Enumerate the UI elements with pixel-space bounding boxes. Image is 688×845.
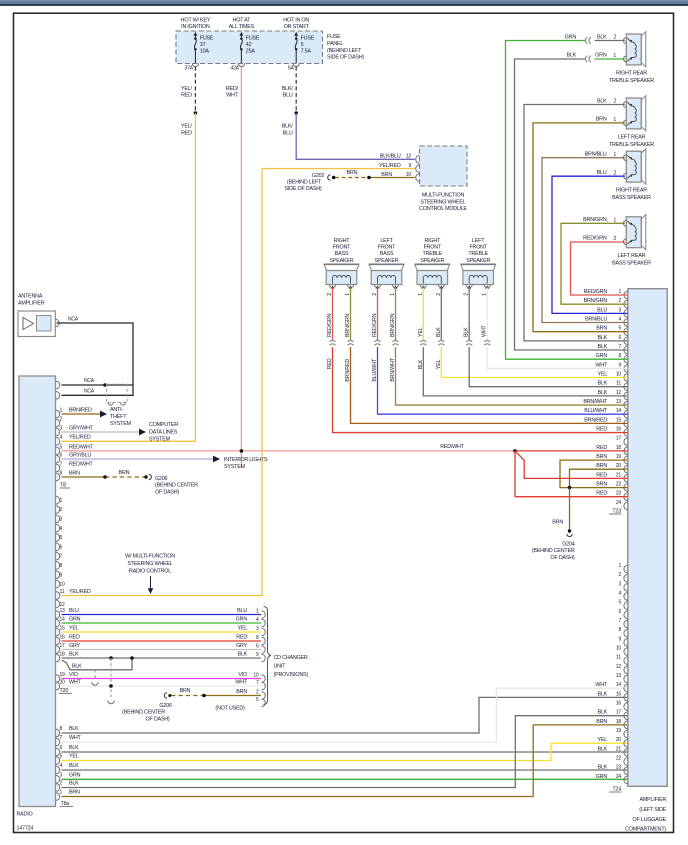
- ground G206 (cd changer): [164, 693, 167, 698]
- svg-text:BLK: BLK: [69, 745, 79, 751]
- svg-text:BRN/BLU: BRN/BLU: [585, 317, 607, 323]
- svg-text:BRN/BLU: BRN/BLU: [585, 152, 607, 158]
- svg-text:37: 37: [200, 42, 206, 48]
- svg-text:BRN: BRN: [596, 454, 607, 460]
- svg-text:5: 5: [618, 600, 621, 606]
- svg-text:RADIO: RADIO: [17, 812, 33, 818]
- svg-text:13: 13: [616, 673, 622, 679]
- svg-text:5: 5: [256, 697, 259, 703]
- svg-text:RIGHT REAR: RIGHT REAR: [616, 70, 647, 76]
- wire BLK/BLU fuse5 to module pin12: [296, 113, 415, 159]
- svg-text:RED: RED: [596, 445, 607, 451]
- svg-text:6: 6: [256, 643, 259, 649]
- svg-text:OF DASH): OF DASH): [551, 555, 575, 561]
- svg-text:RIGHT REAR: RIGHT REAR: [616, 188, 647, 194]
- junction RED/WHT split: [513, 449, 517, 453]
- svg-text:T8a: T8a: [61, 801, 70, 807]
- amp connector T23 pins: [624, 291, 628, 299]
- svg-text:TREBLE: TREBLE: [468, 251, 488, 257]
- svg-text:WHT: WHT: [235, 679, 248, 685]
- svg-text:VIO: VIO: [69, 672, 78, 678]
- wire BRN/GRN left rear bass pin1 to amp T23-2: [561, 223, 628, 304]
- svg-text:19: 19: [616, 728, 622, 734]
- svg-text:SIDE OF DASH): SIDE OF DASH): [327, 55, 364, 61]
- svg-text:RED: RED: [596, 491, 607, 497]
- svg-text:2: 2: [60, 781, 63, 787]
- svg-text:19: 19: [60, 672, 66, 678]
- svg-text:GRN: GRN: [69, 773, 81, 779]
- svg-text:UNIT: UNIT: [274, 664, 287, 670]
- svg-text:18: 18: [616, 445, 622, 451]
- wire RED to amp T23-23: [515, 451, 628, 497]
- svg-text:10: 10: [616, 372, 622, 378]
- amp connector T24 pins: [624, 565, 628, 573]
- svg-text:1: 1: [418, 293, 424, 296]
- wire BLU right rear bass pin2 to amp T23-3: [552, 176, 628, 313]
- svg-text:BLK: BLK: [597, 390, 607, 396]
- svg-text:WHT: WHT: [69, 735, 82, 741]
- svg-text:BASS: BASS: [380, 251, 394, 257]
- junction fuse37 splice: [194, 111, 198, 115]
- svg-text:SIDE OF DASH): SIDE OF DASH): [285, 186, 322, 192]
- svg-text:WHT: WHT: [595, 362, 608, 368]
- svg-text:2: 2: [614, 236, 617, 242]
- svg-text:TREBLE: TREBLE: [422, 251, 442, 257]
- svg-text:8: 8: [256, 635, 259, 641]
- svg-text:25A: 25A: [246, 49, 256, 55]
- wire BLK branch radio pin18: [62, 658, 132, 670]
- wire BLK radio T8a-2 to amp T24-17: [62, 716, 628, 788]
- ground G202: [328, 175, 331, 180]
- svg-text:(BEHIND CENTER: (BEHIND CENTER: [122, 710, 165, 716]
- svg-text:RED/: RED/: [226, 86, 239, 92]
- wire RED/WHT radio pin5 to amplifier: [62, 450, 516, 452]
- svg-text:3: 3: [60, 773, 63, 779]
- svg-text:19: 19: [616, 454, 622, 460]
- svg-text:1: 1: [614, 117, 617, 123]
- svg-text:(BEHIND LEFT: (BEHIND LEFT: [287, 180, 322, 186]
- svg-text:MULTI-FUNCTION: MULTI-FUNCTION: [422, 193, 465, 199]
- svg-text:SPEAKER: SPEAKER: [420, 258, 444, 264]
- wire fuse37 dashed drop: [194, 67, 196, 113]
- wire BLK radio pin18 to CD changer pin 9: [62, 657, 262, 659]
- speaker: RIGHT REAR BASS SPEAKER: [641, 149, 646, 184]
- svg-text:BRN/GRN: BRN/GRN: [390, 313, 396, 337]
- svg-text:1: 1: [614, 218, 617, 224]
- svg-text:1: 1: [618, 563, 621, 569]
- ground G206 (behind center of dash): [144, 475, 147, 478]
- svg-text:14: 14: [60, 616, 66, 622]
- svg-text:42A: 42A: [231, 66, 240, 72]
- svg-text:YEL: YEL: [597, 372, 607, 378]
- svg-text:HOT AT: HOT AT: [233, 18, 252, 24]
- svg-text:TREBLE SPEAKER: TREBLE SPEAKER: [609, 78, 654, 84]
- svg-text:YEL: YEL: [436, 360, 442, 370]
- svg-text:7.5A: 7.5A: [301, 49, 312, 55]
- svg-text:NCA: NCA: [84, 389, 95, 395]
- wire BRN amp T23-22: [560, 487, 628, 489]
- svg-text:SYSTEM: SYSTEM: [110, 421, 132, 427]
- svg-text:OF LUGGAGE: OF LUGGAGE: [633, 817, 667, 823]
- junction BRN splice: [568, 486, 572, 490]
- wire WHT/WHT front speaker pin1 to amp T23-9: [486, 288, 488, 341]
- svg-text:7: 7: [60, 554, 63, 560]
- svg-text:1: 1: [614, 152, 617, 158]
- svg-text:RIGHT: RIGHT: [424, 238, 441, 244]
- svg-text:RED/GRN: RED/GRN: [327, 313, 333, 337]
- svg-text:BLK: BLK: [237, 651, 247, 657]
- svg-text:5: 5: [60, 754, 63, 760]
- module pin 9: [416, 165, 420, 173]
- svg-text:LEFT: LEFT: [380, 238, 393, 244]
- wire VIO radio pin19 to CD changer pin 10: [62, 678, 262, 680]
- svg-text:YEL/RED: YEL/RED: [69, 435, 91, 441]
- svg-text:BLK: BLK: [597, 765, 607, 771]
- svg-text:RED/GRN: RED/GRN: [372, 313, 378, 337]
- svg-text:6: 6: [60, 452, 63, 458]
- svg-text:BRN: BRN: [69, 470, 80, 476]
- svg-text:BRN/GRN: BRN/GRN: [583, 217, 607, 223]
- svg-text:1: 1: [482, 293, 488, 296]
- svg-text:BLU: BLU: [283, 130, 293, 136]
- svg-text:GRN: GRN: [595, 53, 607, 59]
- svg-text:1: 1: [60, 498, 63, 504]
- svg-text:BLK: BLK: [597, 691, 607, 697]
- svg-text:17: 17: [616, 436, 622, 442]
- wire RED/WHT fuse42 to radio pin7: [240, 67, 242, 468]
- svg-text:BLK: BLK: [69, 651, 79, 657]
- svg-text:BRN: BRN: [552, 520, 563, 526]
- svg-text:OF DASH): OF DASH): [146, 716, 170, 722]
- wire REDGRN/BLUWHT front speaker pin2 to amp T23-14: [377, 288, 379, 341]
- wire BLK radio T8a-4 to amp T24-23: [62, 769, 628, 771]
- svg-text:7: 7: [618, 618, 621, 624]
- svg-text:3: 3: [60, 516, 63, 522]
- svg-text:17: 17: [60, 643, 66, 649]
- svg-text:HOT W/ KEY: HOT W/ KEY: [181, 18, 211, 24]
- wire BLK radio T8a-6 to amp T24-21: [62, 751, 628, 753]
- svg-text:20: 20: [60, 679, 66, 685]
- svg-text:GRN: GRN: [596, 353, 608, 359]
- svg-text:4: 4: [60, 763, 63, 769]
- svg-text:BRN: BRN: [596, 482, 607, 488]
- svg-text:BRN/RED: BRN/RED: [345, 359, 351, 382]
- svg-text:BLK: BLK: [566, 53, 576, 59]
- svg-text:24: 24: [616, 500, 622, 506]
- svg-text:4: 4: [618, 317, 621, 323]
- svg-text:GRY/WHT: GRY/WHT: [69, 425, 94, 431]
- svg-text:RED: RED: [181, 130, 192, 136]
- svg-text:BLU: BLU: [597, 170, 607, 176]
- svg-text:37A: 37A: [185, 66, 194, 72]
- svg-text:22: 22: [616, 482, 622, 488]
- svg-text:BRN/RED: BRN/RED: [584, 417, 607, 423]
- svg-text:1: 1: [618, 289, 621, 295]
- svg-text:6: 6: [618, 609, 621, 615]
- svg-text:SPEAKER: SPEAKER: [466, 258, 490, 264]
- svg-text:NCA: NCA: [84, 378, 95, 384]
- svg-text:1: 1: [614, 53, 617, 59]
- wire YEL/BLK front speaker pin1 to amp T23-12: [422, 288, 424, 341]
- svg-text:T24: T24: [612, 787, 621, 793]
- svg-text:BRN/RED: BRN/RED: [69, 407, 92, 413]
- svg-text:BRN: BRN: [596, 326, 607, 332]
- svg-text:12: 12: [616, 390, 622, 396]
- wire RED to amp T23-18: [515, 450, 628, 452]
- svg-text:ANTENNA: ANTENNA: [18, 294, 43, 300]
- svg-text:21: 21: [616, 472, 622, 478]
- wire BRN left rear treble pin1 to amp T23-5: [533, 123, 628, 332]
- junction NCA splice: [103, 383, 107, 387]
- svg-text:BLK: BLK: [597, 98, 607, 104]
- CD changer brace: [264, 607, 272, 705]
- svg-text:BLK: BLK: [597, 335, 607, 341]
- wire BLK/BLK front speaker pin2 to amp T23-11: [468, 288, 470, 341]
- svg-text:SPEAKER: SPEAKER: [330, 258, 354, 264]
- svg-text:BRN: BRN: [180, 688, 191, 694]
- svg-text:3: 3: [60, 425, 63, 431]
- svg-text:SYSTEM: SYSTEM: [224, 464, 246, 470]
- wire BRN amp T23-20: [570, 469, 628, 487]
- svg-text:20: 20: [616, 463, 622, 469]
- svg-text:16: 16: [616, 701, 622, 707]
- svg-text:BASS SPEAKER: BASS SPEAKER: [612, 261, 651, 267]
- svg-text:14: 14: [616, 408, 622, 414]
- svg-text:DATA LINES: DATA LINES: [149, 429, 178, 435]
- svg-text:BLU: BLU: [597, 307, 607, 313]
- wire GRY radio pin17 to CD changer pin 6: [62, 649, 262, 651]
- svg-text:FUSE: FUSE: [200, 36, 214, 42]
- svg-text:COMPARTMENT): COMPARTMENT): [625, 827, 666, 833]
- svg-text:4: 4: [256, 617, 259, 623]
- svg-text:5A: 5A: [288, 66, 295, 72]
- junction fuse5 splice: [294, 111, 298, 115]
- svg-text:11: 11: [616, 381, 621, 387]
- dashed option drop 2: [94, 670, 96, 679]
- svg-text:LEFT: LEFT: [472, 238, 485, 244]
- fuse 5 (7.5A): [294, 32, 298, 36]
- svg-text:WHT: WHT: [595, 682, 608, 688]
- svg-text:YEL/: YEL/: [181, 124, 193, 130]
- svg-text:GRN: GRN: [565, 34, 577, 40]
- wire RED radio pin16 to CD changer pin 8: [62, 640, 262, 642]
- svg-text:VIO: VIO: [238, 672, 247, 678]
- svg-text:TREBLE SPEAKER: TREBLE SPEAKER: [609, 142, 654, 148]
- wire BRN amp T23-19: [560, 460, 628, 488]
- svg-text:11: 11: [60, 589, 65, 595]
- svg-text:BLK: BLK: [436, 327, 442, 337]
- wire BRN/BLU right rear bass pin1 to amp T23-4: [542, 158, 628, 323]
- svg-text:CD CHANGER: CD CHANGER: [274, 655, 308, 661]
- svg-text:BRN: BRN: [596, 463, 607, 469]
- wire WHT radio pin20 to CD changer pin 7: [62, 685, 262, 687]
- svg-text:BLK: BLK: [72, 663, 82, 669]
- svg-text:8: 8: [618, 353, 621, 359]
- svg-text:21: 21: [616, 746, 622, 752]
- svg-text:2: 2: [614, 35, 617, 41]
- svg-text:BLK: BLK: [69, 781, 79, 787]
- svg-text:2: 2: [60, 416, 63, 422]
- wire YEL/RED fuse37 to radio pin4: [62, 113, 196, 441]
- svg-text:10: 10: [60, 582, 66, 588]
- svg-text:BRN: BRN: [596, 719, 607, 725]
- svg-text:FRONT: FRONT: [378, 245, 396, 251]
- fuse 42 (25A): [239, 32, 243, 36]
- svg-text:5: 5: [301, 42, 304, 48]
- radio connector T8 pins: [56, 410, 60, 418]
- svg-text:8: 8: [60, 470, 63, 476]
- svg-text:12: 12: [616, 664, 622, 670]
- amplifier (left side of luggage compartment): [628, 289, 667, 787]
- wire BRNGRN/BRNWHT front speaker pin1 to amp T23-13: [395, 288, 397, 341]
- module pin 12: [416, 156, 420, 164]
- svg-text:7: 7: [256, 680, 259, 686]
- wire fuse5 dashed drop: [295, 67, 297, 113]
- svg-text:17: 17: [616, 710, 622, 716]
- svg-text:15: 15: [616, 691, 622, 697]
- svg-text:YEL: YEL: [597, 737, 607, 743]
- junction fuse42/pin5: [240, 449, 244, 453]
- svg-text:SPEAKER: SPEAKER: [375, 258, 399, 264]
- svg-text:12: 12: [406, 154, 412, 160]
- svg-text:ANTI-: ANTI-: [110, 407, 123, 413]
- svg-text:STEERING WHEEL: STEERING WHEEL: [420, 199, 465, 205]
- svg-text:GRN: GRN: [236, 616, 248, 622]
- svg-text:BLK/: BLK/: [282, 86, 294, 92]
- svg-text:BRN: BRN: [596, 117, 607, 123]
- svg-text:FRONT: FRONT: [469, 245, 487, 251]
- svg-text:BLK: BLK: [418, 359, 424, 369]
- svg-text:2: 2: [464, 293, 470, 296]
- svg-text:ALL TIMES: ALL TIMES: [229, 24, 255, 30]
- wire GRY/WHT radio pin3 to computer data lines: [62, 431, 140, 433]
- svg-text:BRN/WHT: BRN/WHT: [390, 357, 396, 382]
- svg-text:2: 2: [618, 298, 621, 304]
- svg-text:OF DASH): OF DASH): [155, 489, 179, 495]
- svg-text:1: 1: [60, 790, 63, 796]
- svg-text:7: 7: [60, 461, 63, 467]
- wire NCA antenna amplifier to radio: [57, 323, 134, 395]
- multi-function steering wheel control module: [420, 146, 468, 186]
- wire RED to amp T23-21: [515, 451, 628, 479]
- svg-text:LEFT REAR: LEFT REAR: [618, 134, 646, 140]
- wire BRN module pin10 to G202: [369, 177, 415, 179]
- svg-text:9: 9: [60, 572, 63, 578]
- svg-text:HOT IN ON: HOT IN ON: [283, 18, 309, 24]
- svg-text:RED/GRN: RED/GRN: [584, 289, 608, 295]
- svg-text:18: 18: [60, 651, 66, 657]
- svg-text:8: 8: [60, 726, 63, 732]
- svg-text:9: 9: [618, 362, 621, 368]
- module pin 10: [416, 174, 420, 182]
- speaker: LEFT REAR BASS SPEAKER: [641, 215, 646, 250]
- svg-text:BLK: BLK: [464, 327, 470, 337]
- svg-text:24: 24: [616, 774, 622, 780]
- svg-text:10A: 10A: [200, 49, 210, 55]
- svg-text:RED: RED: [327, 358, 333, 369]
- radio: [19, 376, 56, 807]
- svg-text:WHT: WHT: [482, 324, 488, 337]
- svg-text:BLK: BLK: [597, 344, 607, 350]
- svg-text:G204: G204: [562, 542, 575, 548]
- svg-text:OR START: OR START: [284, 24, 310, 30]
- svg-text:2: 2: [256, 689, 259, 695]
- svg-text:1: 1: [60, 407, 63, 413]
- speaker: LEFT REAR TREBLE SPEAKER: [641, 96, 646, 131]
- radio connector T8a pins: [56, 729, 60, 737]
- svg-text:BLK: BLK: [597, 381, 607, 387]
- svg-text:YEL: YEL: [237, 625, 247, 631]
- ground G204 (behind center of dash): [568, 529, 571, 532]
- svg-text:2: 2: [436, 293, 442, 296]
- svg-text:LEFT REAR: LEFT REAR: [618, 253, 646, 259]
- svg-text:AMPLIFIER: AMPLIFIER: [640, 797, 667, 803]
- svg-text:BLK/BLU: BLK/BLU: [380, 154, 401, 160]
- svg-text:3: 3: [618, 307, 621, 313]
- svg-text:5: 5: [60, 535, 63, 541]
- svg-text:GRY: GRY: [69, 643, 81, 649]
- svg-text:PANEL: PANEL: [327, 41, 343, 47]
- svg-text:IN IGNITION: IN IGNITION: [181, 24, 210, 30]
- wire BLU radio pin13 to CD changer pin 1: [62, 614, 262, 616]
- svg-text:13: 13: [616, 399, 622, 405]
- wire WHT radio T8a-7 to amp T24-14: [62, 688, 628, 742]
- svg-text:WHT: WHT: [226, 93, 239, 99]
- svg-text:CONTROL MODULE: CONTROL MODULE: [419, 206, 467, 212]
- svg-text:5: 5: [618, 326, 621, 332]
- svg-text:6: 6: [618, 335, 621, 341]
- svg-text:8: 8: [60, 563, 63, 569]
- svg-text:BLK: BLK: [69, 726, 79, 732]
- svg-text:23: 23: [616, 765, 622, 771]
- svg-text:W/ MULTI-FUNCTION: W/ MULTI-FUNCTION: [125, 553, 175, 559]
- svg-text:13: 13: [60, 608, 66, 614]
- wire GRN right rear treble pin2 to amp T23-8: [595, 40, 625, 42]
- svg-text:22: 22: [616, 756, 622, 762]
- svg-text:COMPUTER: COMPUTER: [149, 422, 178, 428]
- svg-text:YEL/RED: YEL/RED: [69, 589, 91, 595]
- svg-text:T23: T23: [612, 509, 621, 515]
- svg-text:BLK: BLK: [597, 34, 607, 40]
- svg-text:(PROVISIONS): (PROVISIONS): [274, 672, 309, 678]
- svg-text:(BEHIND LEFT: (BEHIND LEFT: [327, 48, 362, 54]
- wire GRY/BLU radio pin6 to interior lights: [62, 458, 214, 460]
- svg-text:FUSE: FUSE: [246, 36, 260, 42]
- wire BLK radio T8a-8 to amp T24-15: [62, 697, 628, 733]
- svg-text:18: 18: [616, 719, 622, 725]
- svg-text:1: 1: [390, 293, 396, 296]
- svg-text:FRONT: FRONT: [424, 245, 442, 251]
- svg-text:RED: RED: [596, 472, 607, 478]
- svg-text:FUSE: FUSE: [327, 34, 341, 40]
- svg-text:BASS SPEAKER: BASS SPEAKER: [612, 195, 651, 201]
- svg-text:RED: RED: [181, 93, 192, 99]
- svg-text:2: 2: [372, 293, 378, 296]
- svg-text:GRY: GRY: [236, 643, 248, 649]
- svg-text:BRN: BRN: [119, 470, 130, 476]
- svg-text:RED/WHT: RED/WHT: [440, 444, 465, 450]
- wire BLK/YEL front speaker pin2 to amp T23-10: [440, 288, 442, 341]
- wire YEL radio pin15 to CD changer pin 3: [62, 631, 262, 633]
- svg-text:9: 9: [256, 652, 259, 658]
- svg-text:BLK: BLK: [597, 746, 607, 752]
- svg-text:10: 10: [253, 672, 259, 678]
- svg-text:WHT: WHT: [69, 679, 82, 685]
- svg-text:AMPLIFIER: AMPLIFIER: [18, 300, 45, 306]
- speaker: RIGHT REAR TREBLE SPEAKER: [641, 32, 646, 67]
- svg-text:G206: G206: [155, 476, 168, 482]
- svg-text:SYSTEM: SYSTEM: [149, 437, 171, 443]
